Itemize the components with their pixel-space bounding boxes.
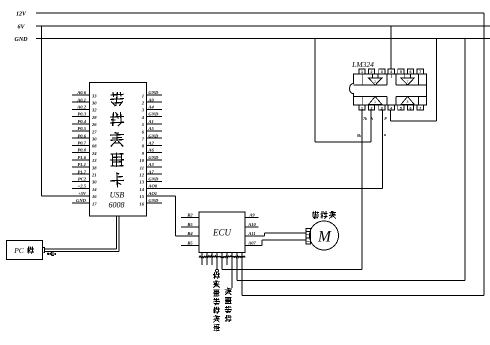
- wire 6V rail to U1 +5V pin: [42, 26, 90, 196]
- svg-text:15: 15: [139, 194, 144, 199]
- U1 right pin 13 GND: [139, 177, 162, 185]
- U2 pin4 internal lead: [390, 74, 392, 78]
- U1 right pin 2 A0: [141, 97, 162, 105]
- svg-text:13: 13: [92, 158, 97, 163]
- U2 bottom pin box 6: [407, 105, 413, 110]
- ECU bottom pin 9: [241, 253, 243, 296]
- U2 amp pin digits: [374, 80, 409, 104]
- svg-text:M: M: [317, 229, 332, 246]
- U1 title char 4: [110, 153, 124, 168]
- svg-text:A0.6: A0.6: [76, 90, 87, 95]
- U2 package body: [354, 74, 427, 105]
- svg-text:B2: B2: [186, 212, 193, 217]
- svg-text:33: 33: [91, 93, 97, 98]
- U2 bottom pin box 2: [368, 105, 374, 110]
- svg-text:7: 7: [407, 80, 409, 84]
- U1 right pin 1 GND: [142, 90, 162, 98]
- net GND rail: [36, 38, 490, 40]
- svg-text:1: 1: [361, 70, 363, 74]
- svg-text:A9: A9: [248, 212, 255, 217]
- svg-text:10: 10: [139, 158, 144, 163]
- svg-text:GND: GND: [148, 90, 159, 95]
- svg-text:A5: A5: [147, 126, 154, 131]
- ECU bottom pin 2: [206, 253, 208, 266]
- label 电动机: [312, 211, 336, 219]
- label 点火开关 (ignition switch): [225, 288, 232, 322]
- wire U1 AO0 to LM324 pin 3b: [146, 110, 382, 188]
- svg-text:A10: A10: [247, 222, 256, 227]
- svg-text:P0.5: P0.5: [77, 126, 86, 131]
- U1 title char 3: [110, 132, 124, 146]
- svg-text:P0.3: P0.3: [77, 112, 86, 117]
- U1 right pin 15 AO1: [139, 191, 157, 199]
- U2 top pin box 10: [398, 69, 404, 74]
- svg-text:+5V: +5V: [78, 191, 87, 196]
- svg-text:P1.1: P1.1: [77, 162, 86, 167]
- svg-text:GND: GND: [148, 177, 159, 182]
- svg-text:B5: B5: [186, 241, 193, 246]
- U1 left pin 24 P0.8: [72, 148, 97, 156]
- svg-text:17: 17: [92, 201, 97, 206]
- U2 top pin box 14: [359, 69, 365, 74]
- U2 top pin box 9: [407, 69, 413, 74]
- U1 right pin 7 GND: [142, 133, 162, 141]
- svg-text:A2: A2: [147, 141, 154, 146]
- svg-text:+2.5: +2.5: [78, 184, 87, 189]
- wire 6V rail to LM324 pin 4: [390, 26, 392, 69]
- IC U2 LM324 quad op-amp: [350, 60, 427, 110]
- svg-text:USB: USB: [110, 191, 125, 200]
- svg-text:5: 5: [400, 106, 402, 110]
- net 6V rail: [36, 25, 490, 27]
- svg-text:4: 4: [390, 106, 392, 110]
- wire ECU A11 to motor: [245, 233, 306, 236]
- svg-text:A0: A0: [147, 97, 154, 102]
- U1 left pin 38 P1.1: [72, 162, 97, 170]
- wire GND rail to LM324 pin 2 (via x315): [315, 39, 371, 143]
- U1 left pin 33 A0.6: [72, 90, 97, 98]
- svg-text:4: 4: [390, 70, 392, 74]
- svg-text:16: 16: [139, 201, 144, 206]
- ECU bottom pin 3: [211, 253, 213, 266]
- U2 op-amp B (top-right): [396, 74, 427, 85]
- svg-text:6: 6: [410, 106, 412, 110]
- ECU left pin B5: [181, 241, 199, 246]
- svg-text:38: 38: [91, 165, 97, 170]
- svg-text:2: 2: [374, 80, 376, 84]
- ECU bottom pin 4: [216, 253, 219, 273]
- U1 title char 2: [110, 112, 124, 126]
- svg-text:B4: B4: [186, 231, 193, 236]
- IC U1 USB-6008 data acquisition card: [72, 82, 162, 216]
- U1 right pin 3 A4: [141, 105, 162, 113]
- U2 top pin box 8: [417, 69, 423, 74]
- U1 left pin 28 P0.3: [72, 112, 97, 120]
- svg-text:14: 14: [92, 187, 97, 192]
- U2 notch: [353, 84, 354, 93]
- svg-text:21: 21: [91, 173, 97, 178]
- svg-text:B5: B5: [186, 222, 193, 227]
- U1 title char 5: [110, 173, 124, 188]
- svg-text:A11: A11: [247, 231, 255, 236]
- ECU left pin B2: [181, 212, 199, 217]
- svg-text:7: 7: [419, 106, 421, 110]
- svg-text:8: 8: [407, 100, 409, 104]
- svg-text:7: 7: [419, 70, 421, 74]
- svg-text:16: 16: [92, 194, 97, 199]
- U1 right pin 11 A3: [140, 162, 162, 170]
- ECU bottom pin 7: [231, 253, 233, 289]
- wire 12V rail to ECU pin (via x484): [242, 13, 484, 296]
- U1 right pin 5 A1: [142, 119, 162, 127]
- U1 title char 1: [110, 92, 124, 106]
- svg-text:A7: A7: [147, 169, 154, 174]
- svg-text:6008: 6008: [109, 201, 125, 210]
- U2 op-amp A (top-left): [354, 74, 387, 85]
- svg-text:0k: 0k: [357, 133, 361, 138]
- wire USB cable (double line) U1 to PC: [42, 216, 119, 253]
- svg-text:A3: A3: [147, 162, 154, 167]
- svg-text:30: 30: [91, 180, 97, 185]
- svg-text:A0.2: A0.2: [76, 105, 87, 110]
- svg-text:32: 32: [91, 108, 97, 113]
- svg-text:A4: A4: [147, 105, 154, 110]
- U1 right pin 8 A2: [142, 141, 162, 149]
- U1 left pin 08 P0.7: [72, 141, 97, 149]
- svg-text:P0.6: P0.6: [77, 133, 86, 138]
- U1 right pin 12 A7: [139, 169, 162, 177]
- svg-text:12: 12: [139, 173, 144, 178]
- svg-text:P0.7: P0.7: [77, 141, 86, 146]
- svg-text:GND: GND: [148, 155, 159, 160]
- svg-text:08: 08: [92, 144, 97, 149]
- svg-text:27: 27: [91, 129, 97, 134]
- U1 left pin 17 GND: [72, 198, 97, 206]
- svg-text:24: 24: [91, 151, 97, 156]
- svg-text:A6: A6: [147, 148, 154, 153]
- svg-text:13: 13: [139, 180, 144, 185]
- U1 right pin 16 GND: [139, 198, 162, 206]
- U2 bottom pin box 4: [388, 105, 394, 110]
- USB plug symbol: [47, 252, 56, 255]
- wire GND rail to ECU pin (via x465): [237, 39, 465, 281]
- U1 left pin 13 P1.6: [72, 155, 97, 163]
- U2 op-amp D (bottom-right): [396, 97, 427, 106]
- ECU bottom pin 5: [222, 110, 362, 269]
- U2 top pin box 13: [368, 69, 374, 74]
- svg-text:P0.4: P0.4: [77, 119, 86, 124]
- svg-text:P1.7: P1.7: [77, 169, 86, 174]
- block PC机 (PC): [6, 241, 42, 260]
- wire ECU A07 to motor: [245, 240, 306, 246]
- svg-text:14: 14: [139, 187, 144, 192]
- ECU bottom pin 8: [236, 253, 238, 281]
- svg-text:GND: GND: [76, 198, 87, 203]
- svg-text:1: 1: [142, 93, 144, 98]
- svg-text:3: 3: [381, 70, 383, 74]
- svg-text:ECU: ECU: [212, 228, 232, 238]
- svg-text:GND: GND: [148, 112, 159, 117]
- U2 bottom pin box 5: [398, 105, 404, 110]
- svg-text:1: 1: [374, 100, 376, 104]
- ECU left pin B4: [181, 231, 199, 236]
- U2 bottom pin box 1: [359, 105, 365, 110]
- wire U1 AO1 to ECU B4: [146, 196, 199, 236]
- U1 right pin 9 A6: [142, 148, 162, 156]
- ECU bottom pin row labels: [199, 256, 245, 258]
- svg-text:2: 2: [371, 70, 373, 74]
- U2 top pin box 11: [388, 69, 394, 74]
- U1 left pin 30 P0.6: [72, 133, 97, 141]
- svg-text:12V: 12V: [16, 12, 27, 18]
- ECU left pin B5: [181, 222, 199, 227]
- svg-text:A1: A1: [147, 119, 153, 124]
- svg-text:6V: 6V: [17, 25, 25, 31]
- svg-text:GND: GND: [148, 133, 159, 138]
- svg-text:28: 28: [91, 115, 97, 120]
- svg-text:A07: A07: [247, 241, 256, 246]
- ECU bottom pin 6: [226, 253, 228, 266]
- U1 left pin 30 PC2: [72, 177, 97, 185]
- U1 left pin 27 P0.5: [72, 126, 97, 134]
- ECU right pin A10: [245, 222, 259, 227]
- svg-text:6: 6: [410, 70, 412, 74]
- ECU right pin A11: [247, 231, 255, 236]
- ECU right pin A07: [247, 241, 256, 246]
- svg-text:11: 11: [140, 165, 144, 170]
- svg-text:A0.1: A0.1: [76, 97, 86, 102]
- svg-text:PC: PC: [13, 246, 25, 255]
- net labels under U2: [357, 116, 387, 138]
- U1 right pin 14 AO0: [139, 184, 157, 192]
- ECU right pin A9: [245, 212, 259, 217]
- U1 left pin 30 A0.1: [72, 97, 97, 105]
- svg-text:AO1: AO1: [147, 191, 157, 196]
- U2 top pin box 12: [379, 69, 385, 74]
- svg-text:1: 1: [361, 106, 363, 110]
- svg-text:7b: 7b: [363, 116, 367, 121]
- ECU bottom pin 1: [201, 253, 203, 266]
- svg-text:30: 30: [91, 137, 97, 142]
- svg-text:30: 30: [91, 101, 97, 106]
- svg-text:AO0: AO0: [147, 184, 157, 189]
- U2 bottom pin box 3: [379, 105, 385, 110]
- svg-text:LM324: LM324: [351, 60, 374, 69]
- U2 op-amp C (bottom-left): [354, 97, 387, 106]
- U1 left pin 32 A0.2: [72, 105, 97, 113]
- svg-text:5: 5: [400, 70, 402, 74]
- U1 right pin 4 GND: [141, 112, 162, 120]
- U1 right pin 6 A5: [142, 126, 162, 134]
- svg-text:P0.8: P0.8: [77, 148, 86, 153]
- svg-text:3: 3: [381, 106, 383, 110]
- U1 left pin 26 P0.4: [72, 119, 97, 127]
- U1 left pin 16 +5V: [72, 191, 97, 199]
- U2 bottom pin box 7: [417, 105, 423, 110]
- motor terminal connector: [306, 229, 311, 245]
- net 12V rail: [36, 12, 484, 14]
- U1 left pin 14 +2.5: [72, 184, 97, 192]
- svg-text:26: 26: [91, 122, 97, 127]
- label 电动机转数信号 (motor speed signal): [213, 272, 220, 331]
- motor M1 电动机: [310, 221, 339, 250]
- svg-text:P1.6: P1.6: [77, 155, 86, 160]
- block ECU: [199, 212, 245, 253]
- svg-text:PC2: PC2: [78, 177, 87, 182]
- svg-text:2: 2: [371, 106, 373, 110]
- U1 right pin 10 GND: [139, 155, 162, 163]
- svg-text:GND: GND: [15, 37, 29, 43]
- wire GND rail to LM324 pin 4b (via x436): [391, 39, 437, 122]
- svg-text:GND: GND: [148, 198, 159, 203]
- U1 left pin 21 P1.7: [72, 169, 97, 177]
